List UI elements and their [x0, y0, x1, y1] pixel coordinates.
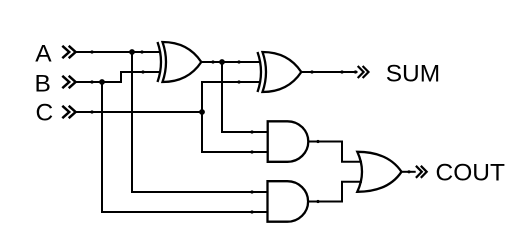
svg-text:SUM: SUM [386, 61, 440, 88]
output pin chevron COUT [416, 166, 427, 178]
svg-text:B: B [35, 70, 51, 97]
or gate OR1 [357, 152, 401, 192]
wire segment joint ticks [90, 50, 410, 213]
junction dot XOR1 output branch [219, 59, 225, 65]
wire C branch up to XOR2 bottom input [202, 82, 261, 112]
wire B to step up to XOR1 bottom input [76, 72, 161, 82]
xor gate XOR1 [158, 42, 202, 82]
and gate AND1 [268, 121, 309, 162]
wire B branch down to AND2 bottom input [102, 82, 268, 212]
net label SUM [386, 61, 440, 88]
junction dot A branch [129, 49, 135, 55]
and gate AND2 [268, 181, 309, 222]
wire XOR2 output to SUM pin [301, 71, 358, 73]
wire XOR1 output branch down to AND1 top input [222, 62, 268, 132]
input pin chevron A [62, 46, 75, 58]
svg-text:A: A [35, 41, 52, 68]
junction dot C branch [199, 109, 205, 115]
xor gate XOR2 [258, 52, 302, 92]
svg-text:C: C [36, 100, 54, 127]
node C [36, 100, 54, 127]
junction dot B branch [99, 79, 105, 85]
wire C to junction [76, 111, 203, 113]
wire AND1 output to OR top input [308, 142, 362, 162]
input pin chevron C [62, 106, 75, 118]
wire A branch down to AND2 top input [132, 52, 268, 192]
wire XOR1 output to XOR2 top input [201, 61, 261, 63]
net label COUT [436, 160, 505, 187]
wire C branch down to AND1 bottom input [202, 112, 268, 152]
wire A to XOR1 top input [76, 51, 161, 53]
output pin chevron SUM [358, 66, 369, 78]
input pin chevron B [62, 76, 75, 88]
node B [35, 70, 51, 97]
node A [35, 41, 52, 68]
wire OR output to COUT pin [402, 171, 416, 173]
wire AND2 output to OR bottom input [308, 182, 362, 202]
svg-text:COUT: COUT [436, 160, 505, 187]
